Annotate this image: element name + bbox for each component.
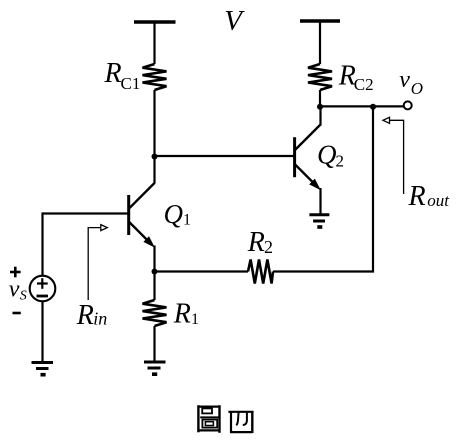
transistor Q2 [295, 125, 321, 190]
resistor R2 [248, 260, 273, 284]
svg-text:Q: Q [317, 140, 337, 170]
svg-text:2: 2 [264, 237, 273, 257]
label - (source polarity bottom) [13, 312, 21, 315]
resistor RC2 [308, 64, 332, 90]
wire: left rail to RC1 top [153, 22, 155, 64]
svg-text:v: v [399, 67, 410, 93]
wire: Q2 emitter to ground [319, 188, 321, 215]
node A junction dot (Q1 collector / Q2 base) [152, 154, 158, 160]
ground (below Q2 emitter) [309, 215, 329, 227]
wire: R1 bottom to ground [153, 326, 155, 362]
wire: node A down to Q1 collector [153, 157, 155, 184]
wire: node A to Q2 base [155, 155, 295, 157]
resistor RC1 [143, 64, 167, 90]
wire: node B to R2 left [155, 270, 249, 272]
svg-text:R: R [76, 300, 94, 331]
wire: right rail to RC2 top [319, 21, 321, 64]
svg-text:S: S [20, 288, 27, 303]
wire: RC1 bottom to node A [153, 90, 155, 158]
svg-text:out: out [427, 191, 450, 210]
transistor Q1 [129, 183, 155, 247]
svg-text:C1: C1 [121, 74, 141, 93]
node C junction dot (Q2 collector / RC2) [317, 104, 323, 110]
wire: vS top lead up to Q1 base wire corner [41, 212, 43, 276]
svg-text:V: V [224, 5, 245, 37]
source vS (circle with polarity) [30, 276, 56, 302]
wire: RC2 bottom to node C [319, 90, 321, 108]
label + (source polarity top) [10, 267, 21, 278]
svg-text:R: R [104, 58, 122, 89]
node D junction dot (output / R2 branch) [370, 104, 376, 110]
svg-text:Q: Q [164, 199, 184, 229]
Rout arrow (output resistance pointer) [383, 117, 404, 194]
svg-text:R: R [408, 181, 426, 212]
caption character 四 [228, 411, 253, 433]
node B junction dot (Q1 emitter / R1 / R2) [152, 269, 158, 275]
terminal vO (open circle) [404, 101, 412, 109]
wire: node B down to R1 [153, 272, 155, 301]
ground (below R1) [144, 362, 166, 374]
svg-text:2: 2 [336, 152, 345, 171]
wire: Q1 emitter down to node B [153, 246, 155, 274]
Rin arrow (input resistance pointer) [88, 225, 107, 300]
wire: vS bottom to ground [41, 301, 43, 362]
svg-text:1: 1 [183, 212, 191, 229]
caption character 圖 [197, 405, 220, 433]
power rail VCC right bar [300, 19, 340, 23]
wire: Q2 collector up to node C [319, 107, 321, 126]
resistor R1 [143, 300, 167, 326]
wire: Q1 base lead [43, 212, 129, 214]
power rail VCC left bar [134, 20, 176, 24]
svg-text:R: R [247, 227, 265, 258]
wire: R2 right to output column [273, 107, 373, 272]
ground (below vS) [32, 363, 54, 375]
svg-text:O: O [411, 79, 423, 98]
svg-text:C2: C2 [354, 75, 374, 94]
wire: node C to output terminal [320, 105, 403, 107]
svg-text:1: 1 [191, 311, 199, 328]
svg-text:v: v [9, 277, 20, 303]
svg-text:R: R [173, 299, 191, 330]
svg-text:in: in [93, 309, 107, 329]
